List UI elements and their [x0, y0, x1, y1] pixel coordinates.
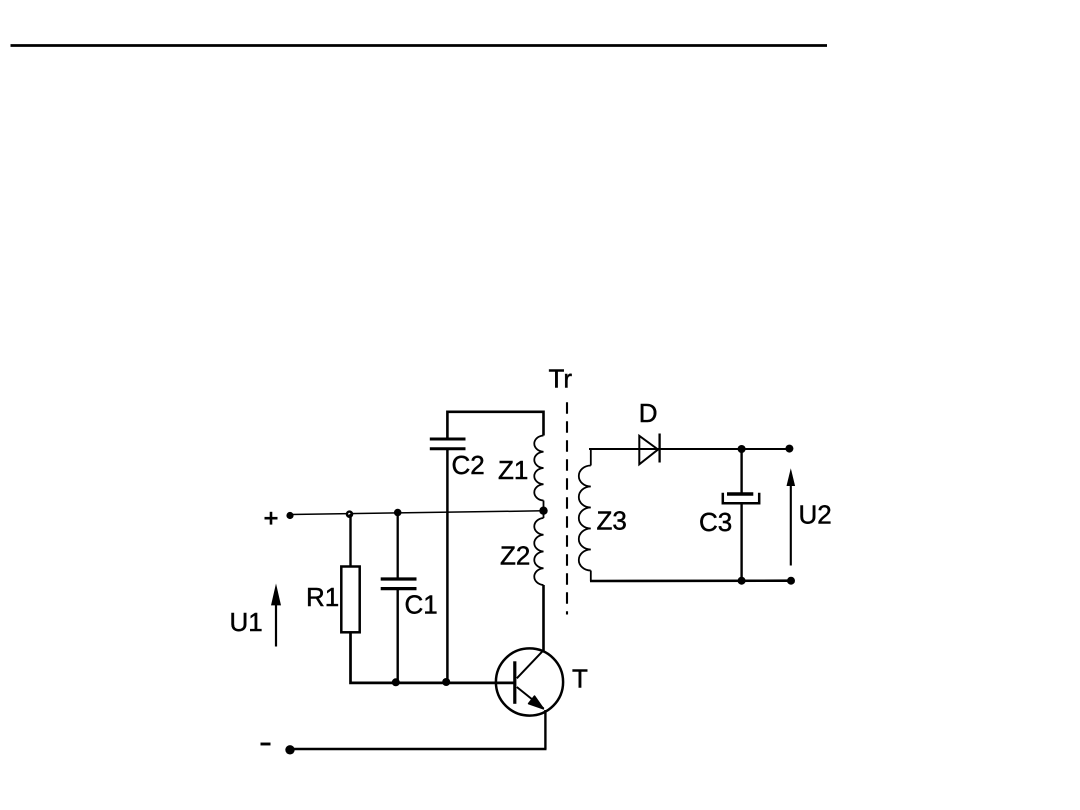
wire C2 top loop [447, 412, 543, 438]
svg-text:U2: U2 [799, 500, 832, 530]
node C2 bottom junction [442, 678, 450, 686]
svg-text:Z3: Z3 [597, 506, 627, 536]
node diode C3 junction [738, 445, 746, 453]
svg-text:T: T [572, 664, 588, 694]
node + terminal dot [286, 512, 293, 519]
svg-text:C1: C1 [405, 589, 438, 619]
transistor T emitter arrowhead [529, 696, 544, 709]
capacitor C1 [381, 579, 417, 589]
transistor T collector diagonal [517, 651, 543, 678]
svg-text:D: D [639, 398, 658, 428]
node top right end [785, 445, 793, 453]
transistor T circle [496, 648, 563, 715]
svg-text:Tr: Tr [549, 364, 573, 394]
node C1 bottom junction [392, 678, 400, 686]
node C1 top junction [394, 509, 402, 517]
winding Z3 secondary [590, 450, 592, 466]
svg-text:Z2: Z2 [500, 541, 530, 571]
arrow U2 [787, 468, 796, 565]
svg-text:Z1: Z1 [498, 455, 528, 485]
transistor T emitter diagonal [517, 687, 544, 709]
wire C3 top [740, 449, 742, 493]
wire emitter down [544, 710, 546, 749]
node C3 bottom junction [738, 577, 746, 585]
node R1 junction [346, 510, 354, 518]
+ terminal [265, 512, 278, 525]
winding Z1 [534, 436, 543, 501]
wire C1 top [397, 512, 399, 578]
node Z1 Z2 junction [543, 501, 545, 519]
winding Z2 [534, 518, 543, 585]
wire C1 bottom [397, 590, 399, 682]
resistor R1 [341, 567, 359, 633]
wire Z2 to collector [542, 585, 545, 652]
transistor T base bar [513, 661, 516, 704]
node minus terminal dot [285, 745, 294, 754]
svg-text:R1: R1 [306, 582, 339, 612]
transformer core dashed line [566, 402, 568, 614]
wire C3 bottom [740, 503, 742, 581]
svg-text:C3: C3 [699, 507, 732, 537]
capacitor C3 polarized [727, 492, 753, 496]
top rule [11, 44, 828, 47]
wire bottom horizontal [290, 748, 547, 751]
capacitor C2 [430, 439, 466, 449]
svg-text:U1: U1 [230, 607, 263, 637]
wire R1 bottom [351, 632, 516, 683]
minus terminal [261, 743, 271, 746]
wire + to transformer [290, 511, 544, 515]
wire R1 top [349, 514, 351, 567]
arrow U1 [271, 584, 281, 647]
node bottom right end [787, 577, 795, 585]
diode D [639, 436, 658, 465]
wire C2 bottom [446, 450, 449, 682]
wire secondary top [589, 448, 790, 450]
wire secondary bottom [590, 579, 791, 582]
svg-text:C2: C2 [452, 450, 485, 480]
